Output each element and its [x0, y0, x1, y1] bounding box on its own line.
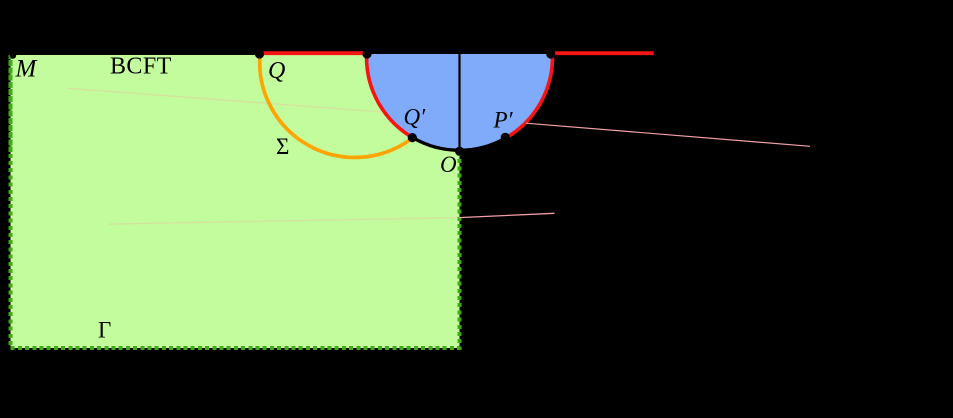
point Q' — [408, 133, 417, 142]
point O — [455, 147, 464, 156]
svg-text:Σ: Σ — [276, 134, 289, 159]
point disk-right — [546, 49, 555, 58]
point P' — [501, 133, 510, 142]
leader line (faint, over green) upper — [68, 88, 381, 112]
red arc left (disk edge to Q') — [367, 55, 413, 138]
red boundary segment Q to disk — [261, 51, 366, 55]
red arc right (P' to disk edge) — [506, 55, 552, 138]
region M: green rectangle — [11, 55, 460, 348]
top-left corner cap of boundary line — [10, 52, 16, 58]
svg-text:P′: P′ — [493, 108, 514, 133]
vertical axis line through disk — [458, 54, 460, 150]
svg-text:Q: Q — [268, 58, 285, 84]
black arc Q'-O-P' (island boundary) — [413, 138, 506, 151]
svg-text:O: O — [440, 152, 457, 177]
svg-text:BCFT: BCFT — [110, 54, 172, 80]
leader line (faint, over green) lower — [108, 218, 459, 225]
svg-text:Γ: Γ — [98, 318, 111, 343]
leader line (bright) from P' area to right — [526, 123, 810, 146]
svg-text:Q′: Q′ — [404, 105, 427, 130]
point Q — [255, 49, 264, 58]
orange RT surface Sigma — [260, 55, 413, 157]
point disk-left — [362, 49, 371, 58]
leader line (bright) lower right — [459, 213, 555, 217]
red boundary segment right of disk — [555, 51, 654, 55]
blue half-disk (entanglement wedge) — [367, 54, 553, 150]
boundary Gamma: dotted dark-green border (left, bottom, right) — [11, 55, 460, 348]
svg-text:M: M — [15, 56, 38, 83]
